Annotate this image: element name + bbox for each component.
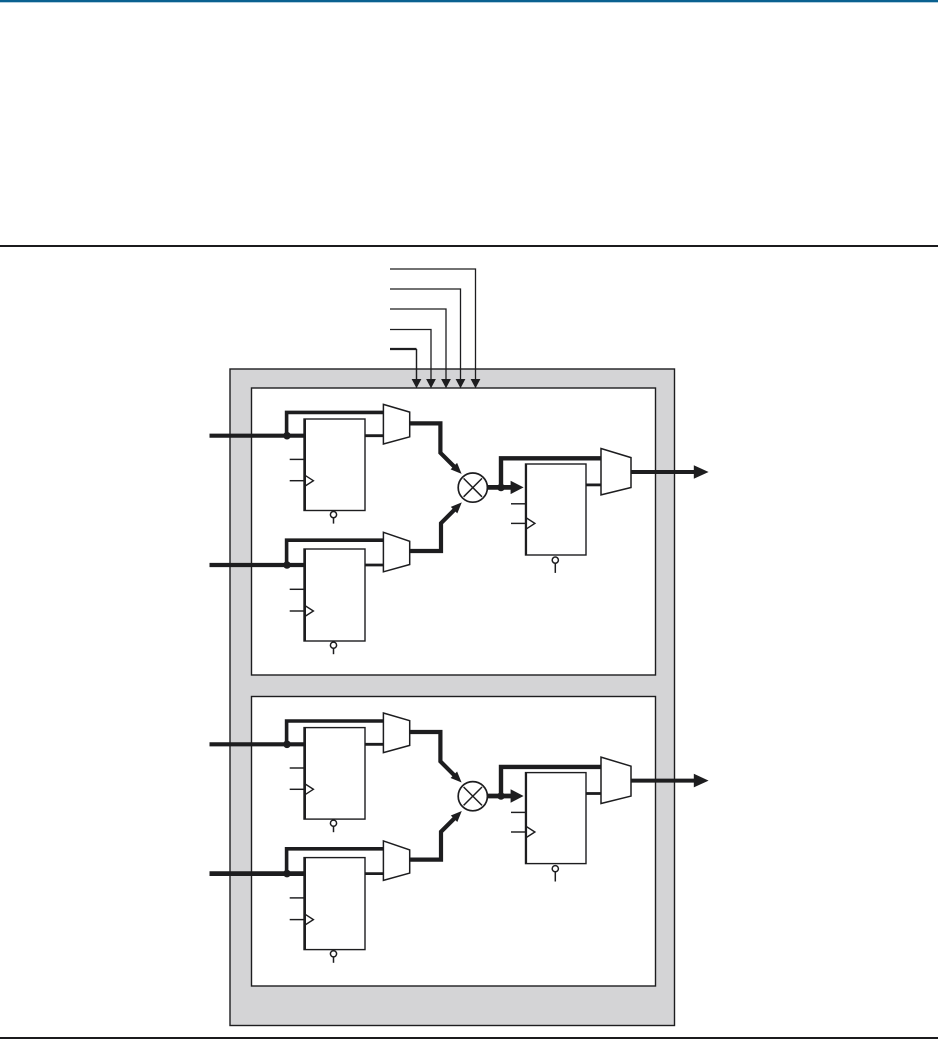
R4 CE stub (290, 767, 304, 769)
wire: product bypass to mux M3 (501, 458, 601, 487)
R5 reset stub (333, 957, 335, 963)
R3 clock stub (511, 522, 525, 524)
wire: X2 product (487, 794, 511, 799)
wire: X1 product (487, 485, 511, 490)
R5 CE stub (290, 897, 304, 899)
register R2 (304, 549, 365, 642)
register R1 (304, 419, 365, 511)
wire: mux M1 output to multiplier X1 (410, 423, 456, 467)
arrowhead into multiplier X2 (upper input) (451, 772, 462, 783)
mux M5 (383, 841, 409, 881)
control wire 5 arrowhead (412, 379, 422, 388)
R2 clock stub (290, 610, 304, 612)
wire: input B2 (210, 871, 305, 876)
R3 CE stub (511, 503, 525, 505)
wire: input A1 (210, 434, 305, 438)
wire: B2 bypass to mux M5 (287, 849, 384, 874)
wire: output P2 (631, 779, 694, 783)
arrowhead into register R3 (511, 481, 524, 494)
node: input B1 junction (283, 561, 291, 569)
R3 clock chevron (527, 518, 535, 529)
wire: R3 Q to mux M3 (586, 483, 601, 486)
wire: mux M5 output to multiplier X2 (410, 817, 456, 859)
wire: R2 Q to mux M2 (365, 564, 383, 567)
R1 reset stub (333, 518, 335, 524)
R4 clock stub (290, 788, 304, 790)
R6 clock chevron (527, 827, 535, 838)
wire: product bypass to mux M6 (501, 767, 601, 796)
mux M2 (383, 532, 409, 572)
wire: output P1 (631, 470, 694, 474)
control wire 1 (390, 269, 476, 380)
header blue bar (0, 0, 938, 3)
R6 reset bubble (552, 866, 558, 872)
R2 clock chevron (305, 606, 313, 617)
top horizontal rule (0, 245, 938, 247)
R6 CE stub (511, 811, 525, 813)
mux M6 (601, 757, 631, 803)
wire: A1 bypass to mux M1 (287, 412, 384, 435)
wire: mux M4 output to multiplier X2 (410, 732, 456, 776)
R5 clock stub (290, 919, 304, 921)
register R4 (304, 727, 365, 819)
control wire 3 arrowhead (441, 379, 451, 388)
R1 reset bubble (330, 511, 336, 517)
control wire 3 (390, 309, 446, 380)
R3 reset stub (554, 563, 556, 573)
arrowhead into multiplier X1 (lower input) (451, 502, 462, 513)
arrowhead into multiplier X2 (lower input) (451, 811, 462, 822)
control wire 1 arrowhead (471, 379, 481, 388)
R1 clock stub (290, 480, 304, 482)
arrowhead: output P1 (694, 465, 709, 479)
R5 reset bubble (330, 951, 336, 957)
arrowhead: output P2 (694, 774, 709, 788)
register R5 (304, 857, 365, 950)
R2 CE stub (290, 588, 304, 590)
R5 clock chevron (305, 914, 313, 925)
R2 reset bubble (330, 642, 336, 648)
multiplier block 2 outline (252, 697, 656, 987)
control wire 2 (390, 289, 461, 380)
wire: input B1 (210, 563, 305, 567)
R1 clock chevron (305, 475, 313, 486)
node: product junction (497, 484, 505, 492)
control wire 2 arrowhead (456, 379, 466, 388)
multiplier block 1 outline (252, 388, 656, 675)
wire: B1 bypass to mux M2 (287, 540, 384, 565)
R3 reset bubble (552, 557, 558, 563)
control wire 4 arrowhead (426, 379, 436, 388)
R4 reset bubble (330, 820, 336, 826)
mux M1 (383, 404, 409, 444)
arrowhead into register R6 (511, 789, 524, 802)
multiplier X1 (458, 473, 487, 502)
register R3 (526, 464, 587, 556)
wire: R5 Q to mux M5 (365, 872, 383, 875)
R2 reset stub (333, 649, 335, 655)
control wire 5 (390, 349, 417, 380)
node: input A1 junction (283, 432, 291, 440)
R4 clock chevron (305, 784, 313, 795)
R6 reset stub (554, 872, 556, 882)
node: product junction (497, 792, 505, 800)
register R6 (526, 772, 587, 864)
block outline (gray frame) (230, 369, 675, 1026)
node: input A2 junction (283, 741, 291, 749)
arrowhead into multiplier X1 (upper input) (451, 463, 462, 474)
mux M3 (601, 449, 631, 495)
wire: input A2 (210, 742, 305, 746)
wire: A2 bypass to mux M4 (287, 721, 384, 744)
R4 reset stub (333, 827, 335, 833)
wire: R4 Q to mux M4 (365, 743, 383, 746)
wire: mux M2 output to multiplier X1 (410, 509, 456, 551)
wire: R1 Q to mux M1 (365, 434, 383, 437)
node: input B2 junction (283, 870, 291, 878)
control wire 4 (390, 330, 431, 381)
R1 CE stub (290, 458, 304, 460)
mux M4 (383, 713, 409, 753)
bottom horizontal rule (0, 1037, 938, 1039)
multiplier X2 (458, 782, 487, 811)
R6 clock stub (511, 831, 525, 833)
wire: R6 Q to mux M6 (586, 792, 601, 795)
